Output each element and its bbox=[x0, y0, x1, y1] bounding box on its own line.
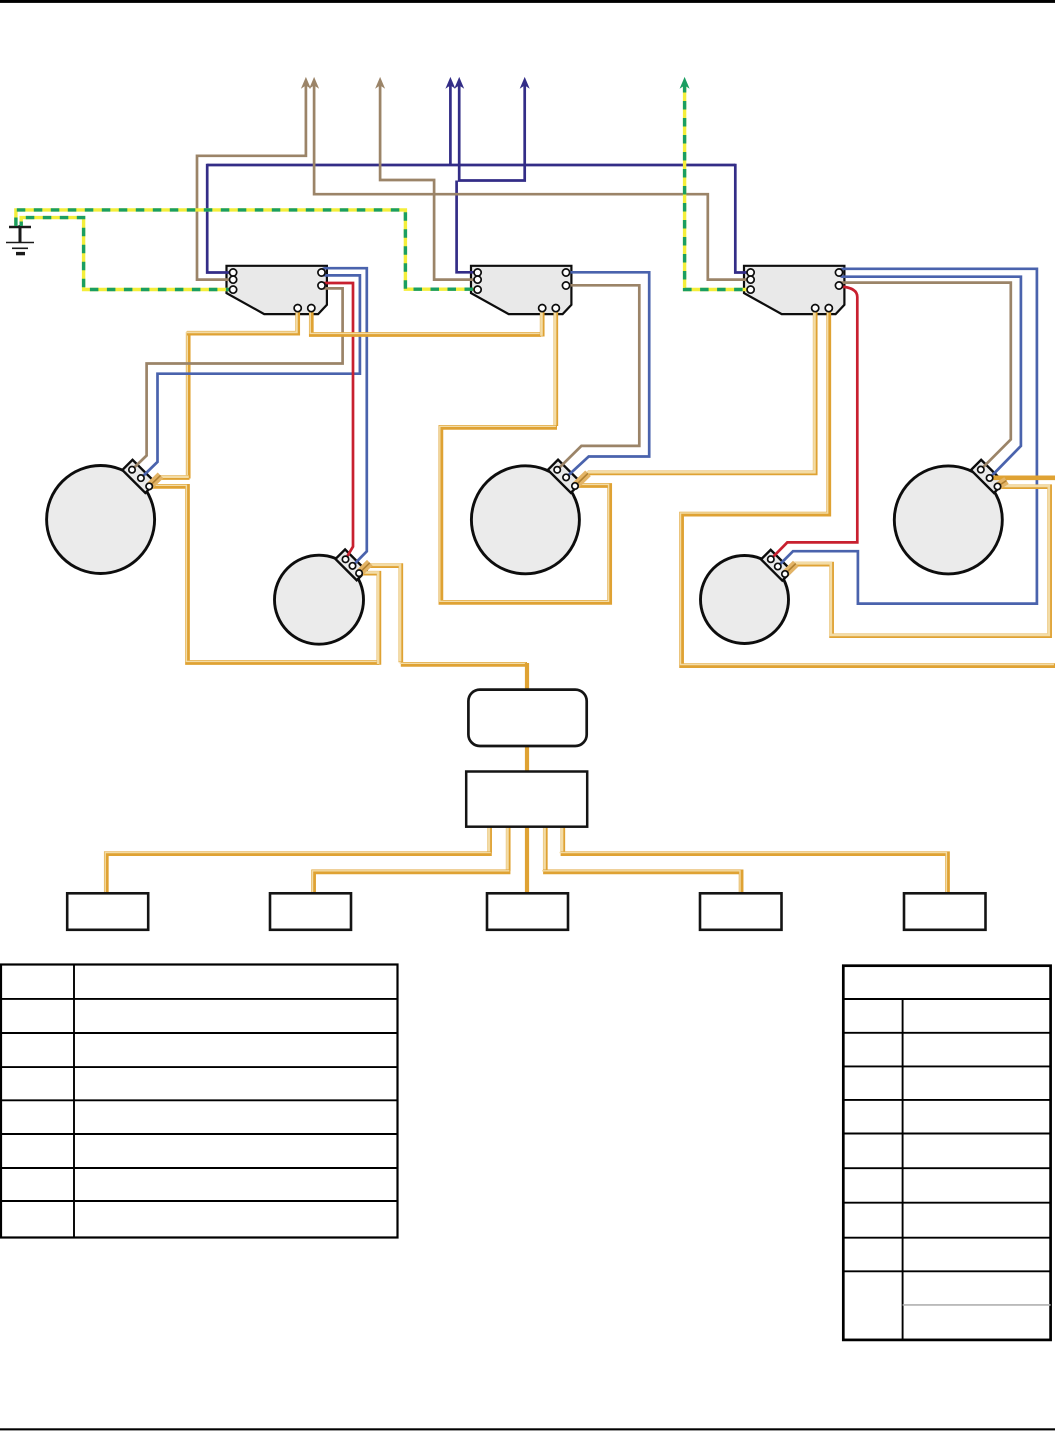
arrowhead A5 navy bbox=[455, 78, 463, 87]
wire orange to box B5 bbox=[561, 854, 948, 894]
wire ground green-yellow to connector C1 pin L3 bbox=[21, 218, 233, 290]
arrowhead A6 navy bbox=[521, 78, 529, 87]
arrowhead A2 brown bbox=[310, 78, 318, 87]
wire orange to box B2 bbox=[314, 872, 511, 894]
wire orange fuse stub 3 bbox=[543, 827, 548, 871]
pins gauge G2 bbox=[342, 556, 348, 562]
wire orange loop around gauge G3 to pin3 bbox=[441, 427, 610, 602]
gauge G5 (right large gauge) bbox=[894, 466, 1002, 574]
box B3 bbox=[487, 893, 568, 930]
wire blue C1 pin R1 inner to gauge G1 pin2 bbox=[141, 268, 1037, 603]
gauge G3 connector bbox=[548, 460, 581, 493]
wire navy arrow A5 to arrow A6 link bbox=[458, 84, 525, 181]
arrowhead A7 green bbox=[681, 78, 689, 87]
gauge G4 (small gauge, right-center) bbox=[701, 556, 789, 644]
wire orange relay to fuse box bbox=[525, 746, 529, 772]
gauge G2 (small gauge, left-center) bbox=[275, 555, 364, 644]
wire orange trunk C1 bottom-left to gauge G1 pin3 (vertical trunk) bbox=[186, 332, 191, 479]
splice stub gauge G4 pin3 bbox=[785, 564, 796, 574]
wire brown C3 pin R2 to gauge G5 pin1 bbox=[839, 283, 1011, 470]
wire brown arrow A3 to connector C2 pin L2 bbox=[380, 84, 478, 280]
box B2 bbox=[270, 893, 351, 930]
wire orange to box B1 bbox=[106, 854, 492, 894]
wire orange light gauge G4 pin3 to gauge G5 pin3 chain bbox=[785, 487, 1050, 636]
gauge G2 connector bbox=[335, 549, 366, 580]
wire orange C1 bottom-right to C2 bottom-left bbox=[311, 309, 541, 335]
legend table left bbox=[1, 965, 398, 1238]
wire orange C2 bottom-right stub down bbox=[553, 309, 558, 426]
box B1 bbox=[67, 893, 148, 930]
connector block C2 bbox=[471, 266, 571, 314]
wire ground green-yellow to connector C2 pin L3 bbox=[16, 84, 751, 290]
wire navy drop to connector C3 pin L1 bbox=[735, 164, 750, 273]
wire navy bus (top horizontal) bbox=[207, 84, 750, 273]
gauge G4 connector bbox=[761, 550, 792, 581]
connector block C3 bbox=[744, 266, 844, 314]
wire orange light C3 bottom-left to gauge G3 pin3 bbox=[575, 309, 815, 486]
wire orange C2 bottom-left stub bbox=[540, 309, 545, 337]
wire orange G2 pin3 upper link to relay feed bbox=[359, 566, 401, 663]
pins gauge G3 bbox=[554, 467, 560, 473]
pins connector C2 bbox=[474, 269, 481, 276]
bottom border line bbox=[0, 1428, 1055, 1430]
arrowhead A3 brown bbox=[376, 78, 384, 87]
box B4 bbox=[700, 893, 782, 930]
wire red C3 pin R2 to gauge G4 pin1 bbox=[771, 287, 858, 560]
connector block C1 bbox=[227, 266, 327, 314]
wire red C1 pin R2 to gauge G2 pin1 bbox=[322, 283, 858, 559]
ground symbol bbox=[6, 225, 34, 254]
wire orange fuse box to box B3 bbox=[525, 827, 529, 894]
wire orange fuse stub 4 bbox=[560, 827, 565, 853]
wire orange C1 bottom-left pin stub and feed bbox=[187, 309, 298, 333]
arrowhead A4 navy bbox=[447, 78, 455, 87]
gauge G5 connector bbox=[971, 460, 1004, 493]
wire brown C2 pin R2 to gauge G3 pin1 bbox=[557, 285, 639, 470]
wire navy drop to connector C1 pin L1 bbox=[207, 164, 233, 273]
relay box (rounded) bbox=[468, 690, 586, 746]
wire orange feed into rounded relay box bbox=[525, 663, 529, 690]
gauge G1 connector bbox=[122, 460, 155, 493]
gauge G3 (center large tachometer) bbox=[471, 466, 579, 574]
wire orange fuse stub 1 bbox=[487, 827, 492, 853]
wire orange to box B4 bbox=[543, 872, 741, 894]
wire orange solid G5 pin2 to right edge bbox=[990, 475, 1055, 480]
gauge G1 (left large speedometer) bbox=[47, 466, 155, 574]
wire orange daisy chain gauge G1 pin3 to gauge G2 pin3 bbox=[149, 486, 379, 662]
wire orange fuse stub 2 bbox=[506, 827, 511, 871]
splice stub gauge G1 pin3 bbox=[149, 473, 1006, 574]
wire blue C3 pin R1 outer to gauge G4 pin2 bbox=[778, 269, 1037, 604]
wire navy arrow A4 shaft bbox=[449, 84, 452, 165]
legend table right bbox=[843, 966, 1050, 1340]
pins connector C3 bbox=[747, 269, 754, 276]
splice stub gauge G2 pin3 bbox=[359, 563, 370, 573]
fuse box bbox=[466, 772, 587, 827]
splice stub gauge G5 pin3 bbox=[998, 481, 1007, 487]
pins connector C1 bbox=[129, 269, 1001, 577]
wire blue C1 pin R1 outer to gauge G2 pin2 bbox=[322, 268, 367, 566]
wire ground green-yellow arrow A7 shaft to connector C3 pin L3 bbox=[685, 84, 751, 290]
wire brown C1 pin R2 to gauge G1 pin1 bbox=[132, 288, 343, 469]
wire blue C3 pin R1 inner to gauge G5 pin2 bbox=[839, 274, 1021, 478]
pins gauge G1 bbox=[129, 467, 135, 473]
box B5 bbox=[904, 893, 986, 930]
pins gauge G4 bbox=[768, 556, 774, 562]
pins gauge G5 bbox=[978, 466, 984, 472]
arrowhead A1 brown bbox=[302, 78, 310, 87]
wire orange G1 pin3 upper link bbox=[149, 478, 189, 487]
top border bar bbox=[0, 0, 1055, 3]
wire orange loop C3 bottom-right around gauge G4 to right edge bbox=[682, 309, 1055, 666]
wire blue C2 pin R1 to gauge G3 pin2 bbox=[566, 272, 649, 477]
wire brown arrow A2 to connector C3 pin L2 bbox=[314, 84, 750, 280]
wire navy drop to connector C2 pin L1 bbox=[457, 181, 478, 273]
wire brown arrow A1 to connector C1 pin L2 bbox=[132, 84, 1011, 470]
splice stub gauge G3 pin3 bbox=[575, 473, 588, 486]
